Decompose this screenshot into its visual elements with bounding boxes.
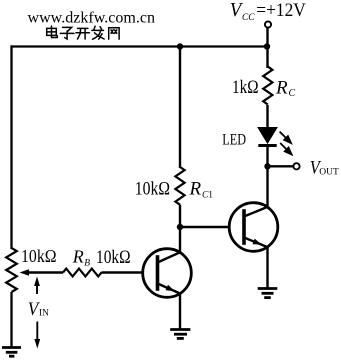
svg-text:10kΩ: 10kΩ: [21, 246, 57, 266]
wire LED to collector: [266, 146, 268, 208]
wire Vcc to Rc: [266, 47, 268, 69]
wire top bus: [11, 45, 268, 47]
junction top-middle: [177, 43, 183, 49]
node Vcc label: [230, 0, 306, 23]
svg-text:www.dzkfw.com.cn: www.dzkfw.com.cn: [28, 9, 156, 26]
ground (potentiometer): [2, 348, 21, 357]
Vin down arrow: [34, 322, 40, 349]
potentiometer RV1 zigzag: [6, 248, 17, 292]
wire RB to Q1 base: [102, 271, 144, 273]
svg-text:R: R: [275, 77, 288, 98]
svg-text:CC: CC: [242, 13, 255, 23]
potentiometer wiper arrow: [20, 269, 64, 276]
ground (Q1 emitter): [170, 330, 190, 339]
wire Rc to LED: [266, 105, 268, 130]
resistor RC zigzag: [263, 67, 272, 105]
wire Q2 emitter to ground: [266, 246, 268, 289]
wire Vcc stub: [266, 28, 268, 47]
svg-text:=+12V: =+12V: [256, 0, 306, 21]
label Vout: [310, 157, 339, 178]
svg-text:R: R: [72, 246, 84, 266]
Vcc terminal: [265, 21, 271, 27]
Vin up arrow: [34, 277, 40, 295]
svg-text:10kΩ: 10kΩ: [96, 248, 131, 268]
wire middle vertical: [179, 47, 181, 169]
resistor RC1 zigzag: [175, 167, 184, 205]
wire base node to Q2 base: [180, 226, 230, 228]
resistor RB zigzag: [63, 269, 102, 277]
Vout terminal: [293, 163, 299, 169]
label RB: [72, 246, 91, 268]
wire left vertical: [10, 45, 12, 249]
junction top-right: [264, 43, 270, 49]
svg-text:1: 1: [208, 191, 213, 201]
svg-text:OUT: OUT: [319, 167, 339, 177]
svg-text:R: R: [189, 178, 202, 199]
svg-text:B: B: [84, 258, 90, 268]
label RC: [275, 77, 296, 99]
svg-text:LED: LED: [222, 132, 246, 149]
label RC1: [189, 178, 214, 200]
wire Q1 emitter to ground: [179, 293, 181, 330]
svg-text:C: C: [289, 88, 296, 99]
ground (Q2 emitter): [258, 289, 278, 298]
site name 电子开发网 (drawn glyphs): [47, 26, 119, 39]
label Vin: [28, 299, 49, 320]
svg-text:IN: IN: [39, 309, 49, 319]
transistor Q1: [143, 249, 192, 298]
svg-text:1kΩ: 1kΩ: [232, 77, 259, 98]
wire RC1 to Q1 collector: [179, 205, 181, 253]
transistor Q2: [229, 203, 278, 252]
LED D1: [258, 128, 277, 146]
wire to Vout terminal: [268, 165, 294, 167]
junction Vout: [264, 163, 270, 169]
LED light arrows: [280, 132, 292, 155]
svg-text:10kΩ: 10kΩ: [135, 178, 170, 199]
wire pot to ground: [10, 292, 12, 348]
junction base node: [177, 224, 183, 230]
